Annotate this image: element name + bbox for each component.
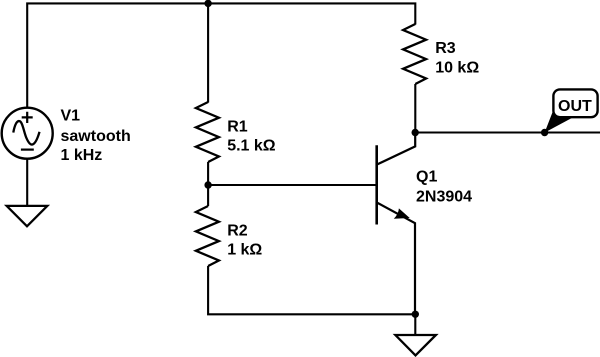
ground symbol right bbox=[395, 335, 436, 355]
node: emitter/ground junction dot bbox=[412, 311, 419, 318]
ground symbol left bbox=[7, 206, 48, 226]
svg-text:OUT: OUT bbox=[558, 98, 592, 115]
svg-text:10 kΩ: 10 kΩ bbox=[435, 59, 479, 76]
transistor Q1 bbox=[377, 133, 416, 315]
net flag OUT pointer bbox=[545, 113, 573, 133]
voltage source V1 bbox=[2, 108, 53, 159]
svg-text:R2: R2 bbox=[227, 223, 248, 240]
svg-text:5.1 kΩ: 5.1 kΩ bbox=[227, 137, 276, 154]
resistor R1 bbox=[196, 102, 219, 162]
svg-text:R3: R3 bbox=[435, 40, 456, 57]
resistor R3 bbox=[403, 24, 426, 84]
wire: R1 top lead bbox=[207, 3, 209, 102]
svg-text:V1: V1 bbox=[61, 108, 81, 125]
wire: base wire to Q1 bbox=[208, 184, 377, 186]
wire: ground stub right bbox=[414, 314, 416, 335]
resistor R2 bbox=[196, 206, 219, 266]
net flag OUT box bbox=[553, 89, 597, 117]
node: collector junction dot bbox=[412, 129, 419, 136]
wire: output wire bbox=[415, 131, 600, 133]
wire: R3 bottom lead bbox=[414, 84, 416, 133]
svg-text:Q1: Q1 bbox=[416, 169, 437, 186]
svg-text:sawtooth: sawtooth bbox=[61, 128, 131, 145]
wire: R1 bottom lead bbox=[207, 162, 209, 185]
svg-text:2N3904: 2N3904 bbox=[416, 189, 472, 206]
svg-text:R1: R1 bbox=[227, 118, 248, 135]
node: base junction dot bbox=[204, 181, 211, 188]
wire: V1 bottom lead bbox=[26, 158, 28, 206]
wire: V1 top lead + top rail left segment bbox=[27, 3, 208, 109]
svg-text:1 kΩ: 1 kΩ bbox=[227, 242, 262, 259]
svg-text:1 kHz: 1 kHz bbox=[61, 147, 103, 164]
node: top rail junction dot bbox=[204, 0, 211, 7]
node: output junction dot bbox=[541, 129, 548, 136]
wire: top rail right segment + R3 top lead bbox=[208, 3, 415, 24]
wire: R2 top lead bbox=[207, 185, 209, 206]
wire: R2 bottom lead + bottom rail bbox=[208, 266, 415, 314]
